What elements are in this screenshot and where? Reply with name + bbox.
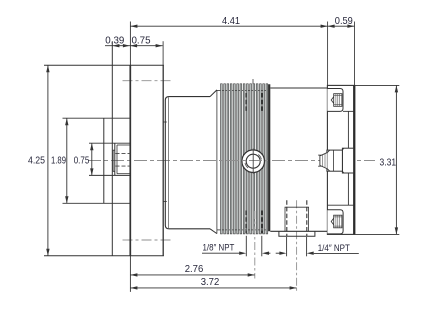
- svg-text:0.39: 0.39: [105, 35, 124, 46]
- svg-text:0.59: 0.59: [335, 16, 353, 27]
- svg-text:0.75: 0.75: [74, 156, 90, 167]
- svg-text:0.75: 0.75: [132, 35, 151, 46]
- svg-text:3.72: 3.72: [201, 277, 220, 288]
- svg-text:1/4″ NPT: 1/4″ NPT: [318, 243, 350, 253]
- svg-text:1/8″ NPT: 1/8″ NPT: [203, 243, 235, 253]
- svg-text:2.76: 2.76: [185, 264, 204, 275]
- svg-text:1.89: 1.89: [51, 156, 66, 167]
- svg-text:4.25: 4.25: [28, 156, 45, 167]
- svg-text:3.31: 3.31: [380, 158, 397, 169]
- svg-text:4.41: 4.41: [222, 16, 240, 27]
